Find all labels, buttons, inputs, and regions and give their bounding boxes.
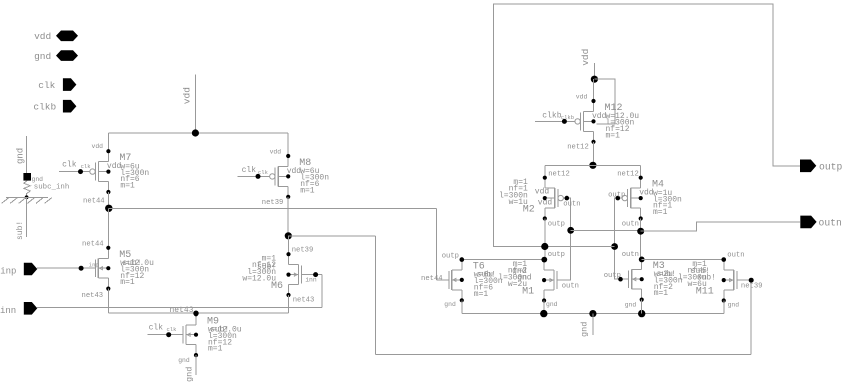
svg-text:net43: net43 (293, 296, 315, 304)
svg-text:net44: net44 (83, 197, 105, 205)
svg-text:net44: net44 (421, 275, 443, 283)
svg-text:outp: outp (608, 191, 625, 199)
svg-text:m=1: m=1 (606, 131, 621, 140)
svg-text:outn: outn (622, 251, 639, 259)
svg-text:outn: outn (819, 218, 842, 229)
svg-text:clk: clk (167, 326, 178, 333)
svg-text:outp: outp (548, 251, 565, 259)
svg-text:sub!: sub! (697, 273, 716, 282)
svg-text:m=1: m=1 (120, 278, 135, 287)
svg-text:subc_inh: subc_inh (34, 184, 69, 192)
svg-text:gnd: gnd (34, 51, 51, 62)
svg-text:M11: M11 (696, 287, 714, 298)
svg-text:M6: M6 (271, 281, 283, 292)
svg-text:gnd: gnd (546, 301, 558, 308)
svg-text:vdd: vdd (580, 49, 591, 66)
svg-text:gnd: gnd (625, 302, 637, 309)
svg-text:clkb: clkb (33, 101, 56, 112)
svg-text:sub!: sub! (16, 221, 25, 240)
svg-text:clk: clk (258, 169, 269, 176)
svg-text:m=1: m=1 (474, 290, 489, 299)
svg-text:net44: net44 (82, 241, 104, 249)
svg-text:outn: outn (622, 220, 639, 228)
svg-text:outp: outp (819, 162, 842, 173)
svg-text:m=1: m=1 (120, 182, 135, 191)
svg-text:vdd: vdd (34, 31, 51, 42)
svg-text:outn: outn (562, 282, 579, 290)
svg-text:clkb: clkb (542, 111, 561, 120)
svg-text:vdd: vdd (107, 162, 122, 171)
svg-text:net43: net43 (82, 292, 104, 300)
svg-text:vdd: vdd (576, 94, 588, 101)
svg-text:vdd: vdd (535, 188, 550, 197)
svg-text:gnd: gnd (444, 301, 456, 308)
svg-text:inn: inn (0, 306, 16, 316)
svg-text:gnd: gnd (728, 302, 740, 309)
svg-text:gnd: gnd (517, 273, 532, 282)
svg-text:vdd: vdd (182, 87, 193, 104)
svg-text:clkb: clkb (561, 114, 574, 121)
svg-text:outp: outp (548, 220, 565, 228)
svg-text:clk: clk (149, 324, 164, 333)
svg-text:gnd: gnd (178, 357, 190, 364)
svg-text:M1: M1 (522, 287, 534, 298)
svg-text:M2: M2 (523, 205, 535, 216)
svg-text:m=1: m=1 (300, 186, 315, 195)
svg-text:m=1: m=1 (208, 345, 223, 354)
svg-text:outn: outn (563, 200, 580, 208)
svg-text:outn: outn (727, 252, 744, 260)
svg-text:gnd: gnd (185, 367, 195, 382)
svg-text:clk: clk (81, 163, 92, 170)
svg-text:gnd: gnd (16, 148, 26, 164)
svg-text:clk: clk (62, 161, 77, 170)
svg-text:clk: clk (38, 80, 55, 91)
svg-text:inp: inp (89, 262, 99, 269)
svg-text:net39: net39 (292, 247, 314, 255)
svg-text:vdd: vdd (639, 189, 654, 198)
svg-text:gnd: gnd (580, 322, 590, 337)
svg-text:vdd: vdd (538, 199, 553, 208)
svg-text:m=1: m=1 (654, 289, 669, 298)
svg-text:clk: clk (242, 166, 257, 175)
svg-text:net12: net12 (548, 170, 570, 178)
svg-text:vdd: vdd (92, 143, 104, 150)
svg-text:net39: net39 (262, 199, 284, 207)
svg-text:m=1: m=1 (653, 208, 668, 217)
svg-text:vdd: vdd (270, 149, 282, 156)
svg-text:inp: inp (0, 267, 16, 277)
svg-text:outp: outp (442, 253, 459, 261)
svg-text:net39: net39 (741, 282, 763, 290)
svg-text:vdd: vdd (287, 167, 302, 176)
svg-text:sub!: sub! (257, 263, 276, 272)
svg-text:gnd: gnd (32, 176, 44, 183)
svg-text:vdd: vdd (592, 112, 607, 121)
svg-text:net12: net12 (567, 144, 589, 152)
svg-text:inn: inn (305, 277, 317, 284)
svg-text:net12: net12 (617, 170, 639, 178)
